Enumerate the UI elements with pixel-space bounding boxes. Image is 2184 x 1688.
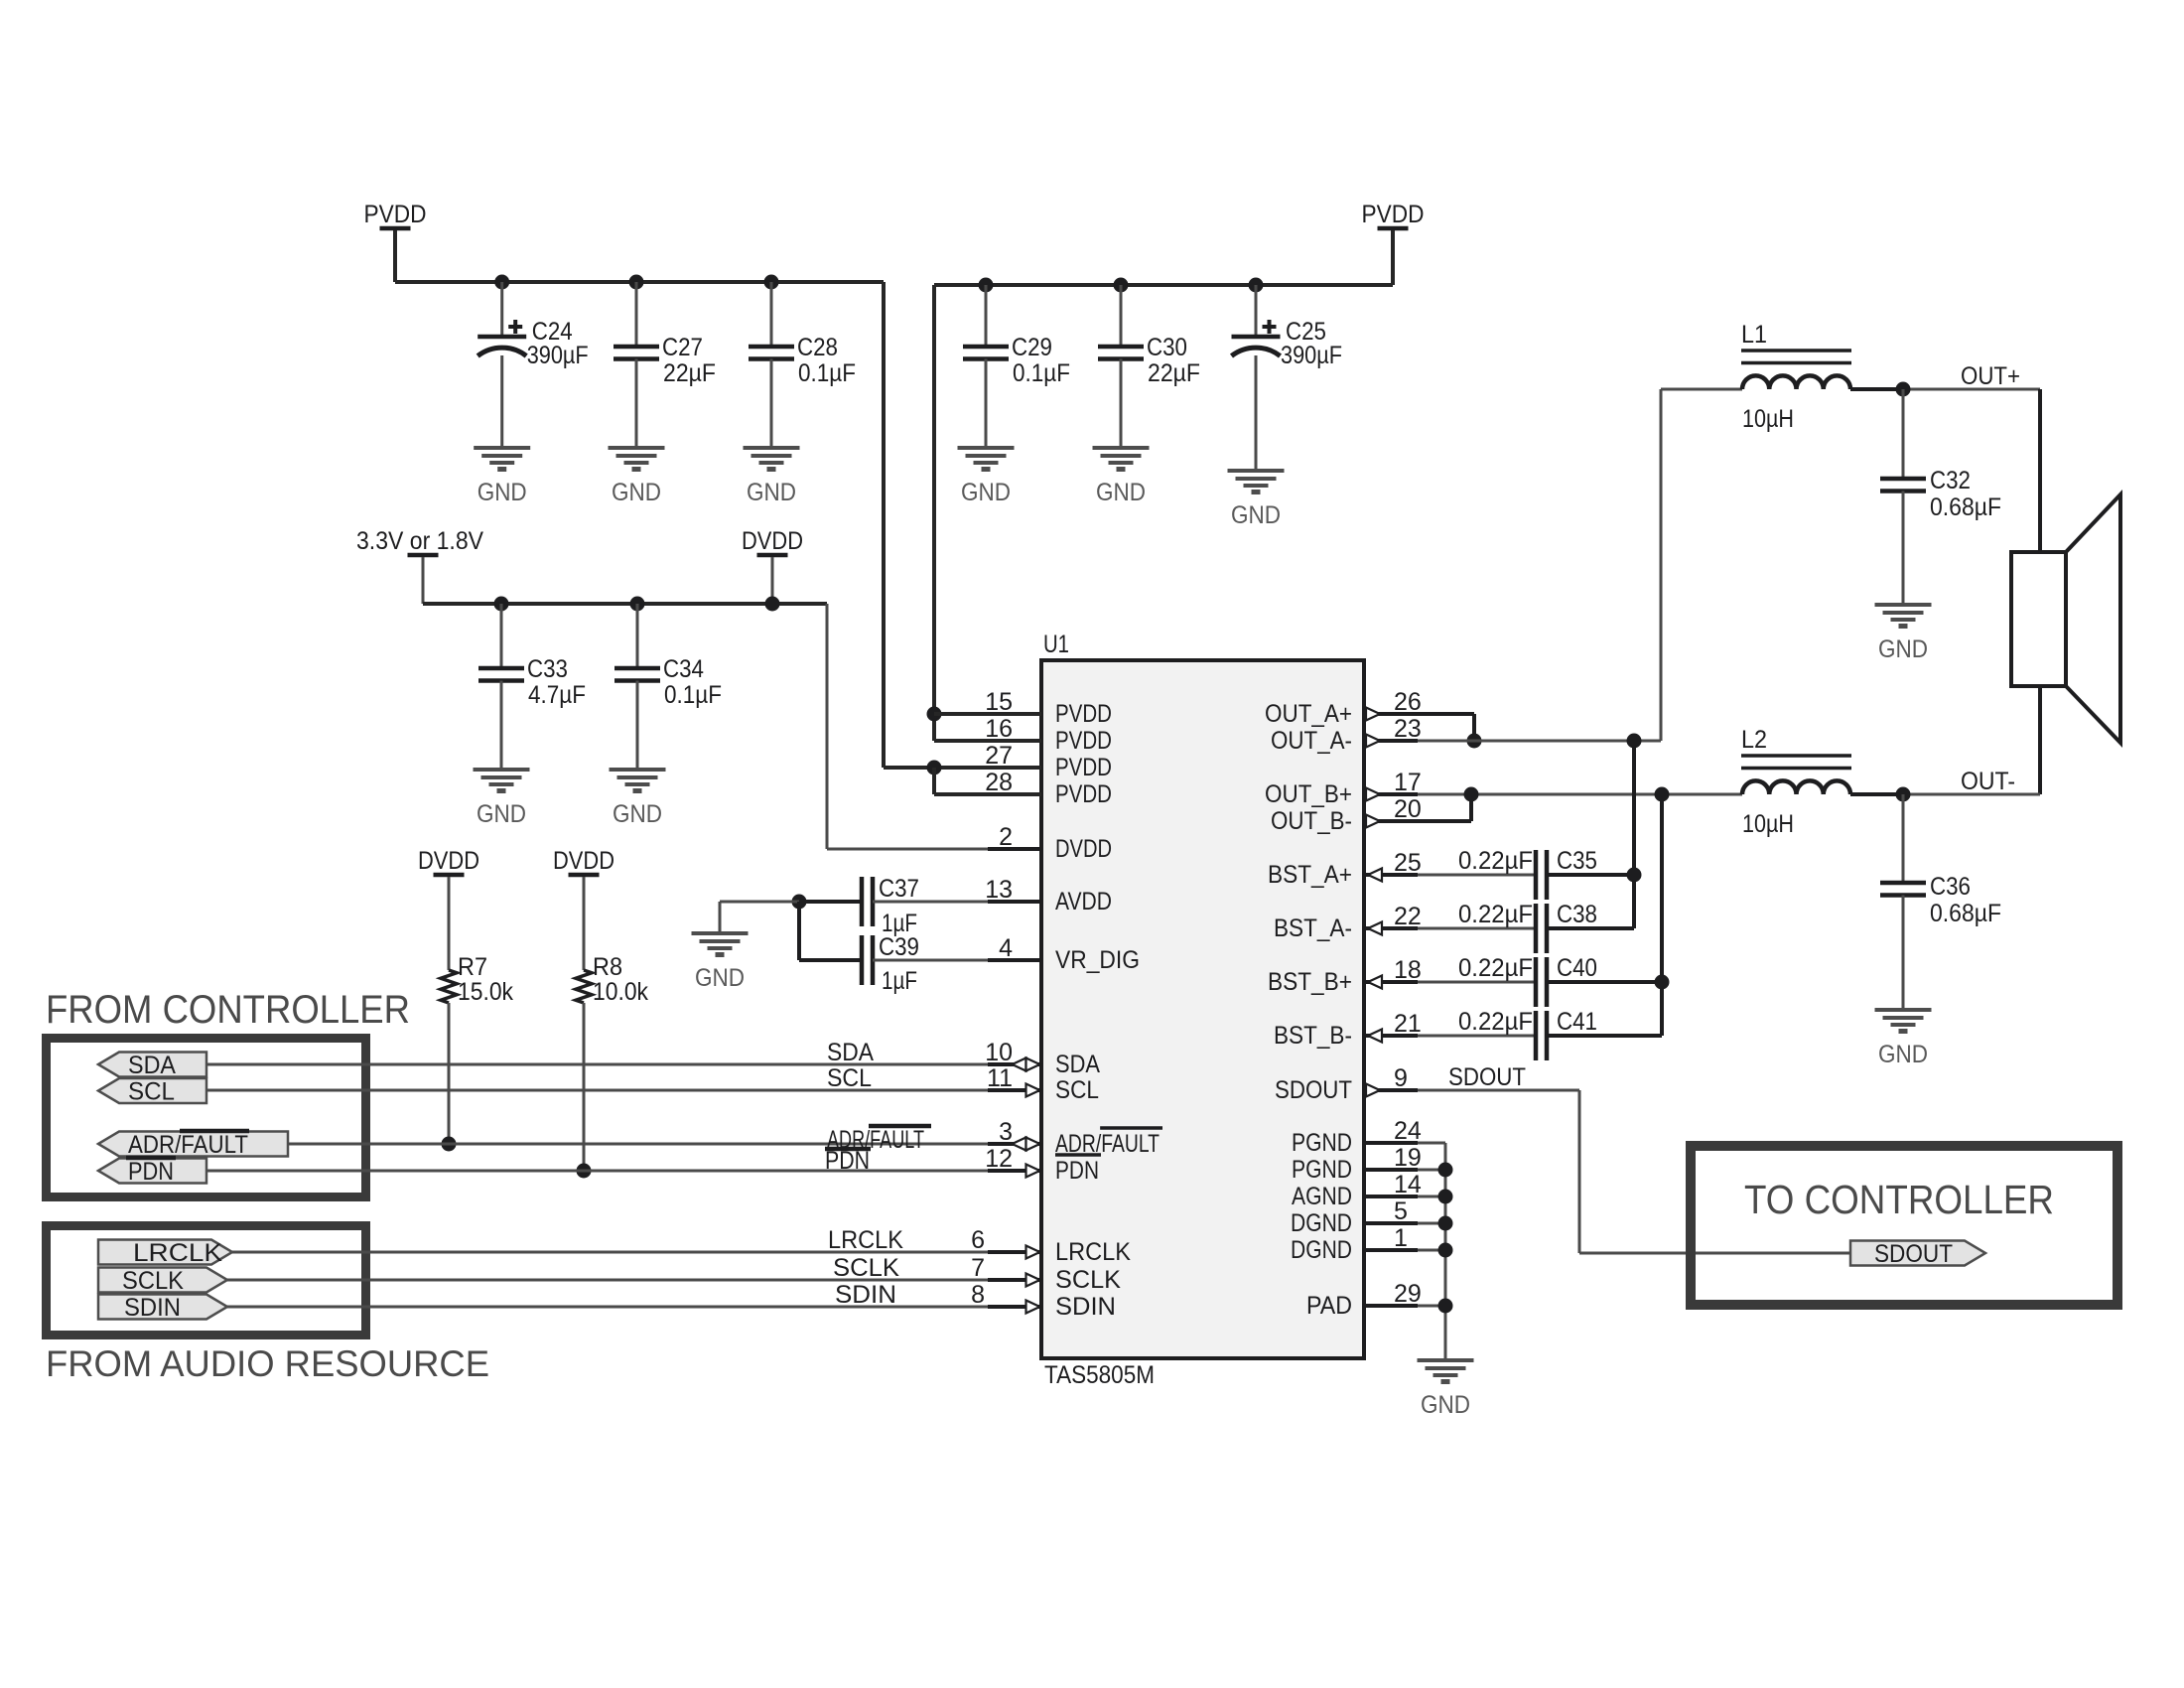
svg-text:BST_A-: BST_A- (1274, 914, 1352, 942)
svg-text:25: 25 (1394, 849, 1422, 877)
svg-text:SCLK: SCLK (833, 1254, 899, 1282)
svg-text:22: 22 (1394, 903, 1422, 930)
svg-text:10µH: 10µH (1742, 810, 1794, 838)
svg-text:15.0k: 15.0k (458, 978, 513, 1006)
svg-text:13: 13 (985, 876, 1013, 904)
svg-text:10.0k: 10.0k (593, 978, 648, 1006)
svg-text:OUT_A+: OUT_A+ (1265, 700, 1352, 728)
svg-text:10µH: 10µH (1742, 405, 1794, 433)
svg-text:TAS5805M: TAS5805M (1044, 1361, 1155, 1389)
svg-text:2: 2 (999, 823, 1013, 851)
svg-text:0.68µF: 0.68µF (1930, 493, 2001, 521)
svg-text:U1: U1 (1043, 631, 1069, 658)
svg-text:PVDD: PVDD (1055, 727, 1112, 755)
svg-text:PVDD: PVDD (1055, 780, 1112, 808)
svg-text:SDIN: SDIN (835, 1281, 896, 1309)
svg-text:DGND: DGND (1291, 1209, 1352, 1237)
svg-text:DGND: DGND (1291, 1236, 1352, 1264)
svg-text:28: 28 (985, 769, 1013, 796)
svg-text:0.22µF: 0.22µF (1458, 1008, 1533, 1036)
svg-text:C36: C36 (1930, 873, 1971, 901)
svg-text:DVDD: DVDD (553, 847, 614, 875)
svg-text:AGND: AGND (1292, 1183, 1352, 1210)
svg-text:PVDD: PVDD (1362, 201, 1425, 228)
svg-text:GND: GND (961, 479, 1011, 506)
svg-text:390µF: 390µF (527, 342, 589, 369)
svg-text:14: 14 (1394, 1171, 1422, 1198)
svg-text:PVDD: PVDD (1055, 700, 1112, 728)
svg-text:SDIN: SDIN (1055, 1293, 1116, 1321)
svg-text:C38: C38 (1557, 901, 1597, 928)
svg-text:LRCLK: LRCLK (133, 1239, 222, 1267)
svg-text:22µF: 22µF (663, 359, 716, 387)
svg-text:AVDD: AVDD (1055, 888, 1112, 915)
svg-text:OUT_B-: OUT_B- (1271, 807, 1352, 835)
svg-text:0.22µF: 0.22µF (1458, 847, 1533, 875)
svg-text:SDOUT: SDOUT (1874, 1240, 1953, 1268)
svg-text:GND: GND (1878, 635, 1928, 663)
svg-text:15: 15 (985, 688, 1013, 716)
svg-text:GND: GND (478, 479, 527, 506)
svg-text:6: 6 (971, 1226, 985, 1254)
svg-text:0.68µF: 0.68µF (1930, 900, 2001, 927)
svg-text:3.3V or 1.8V: 3.3V or 1.8V (356, 527, 483, 555)
svg-text:GND: GND (612, 479, 661, 506)
svg-text:GND: GND (1421, 1391, 1470, 1419)
svg-text:LRCLK: LRCLK (828, 1226, 903, 1254)
svg-text:GND: GND (747, 479, 796, 506)
svg-text:19: 19 (1394, 1144, 1422, 1172)
svg-text:C29: C29 (1012, 334, 1052, 361)
svg-text:L1: L1 (1741, 321, 1767, 349)
svg-text:SDOUT: SDOUT (1448, 1063, 1526, 1091)
svg-text:BST_B+: BST_B+ (1268, 968, 1352, 996)
svg-text:DVDD: DVDD (1055, 835, 1112, 863)
svg-text:4.7µF: 4.7µF (528, 681, 586, 709)
svg-text:22µF: 22µF (1148, 359, 1200, 387)
svg-text:12: 12 (985, 1145, 1013, 1173)
svg-text:SCL: SCL (128, 1078, 175, 1106)
svg-text:GND: GND (1096, 479, 1146, 506)
svg-text:PVDD: PVDD (1055, 754, 1112, 781)
svg-text:18: 18 (1394, 956, 1422, 984)
svg-text:21: 21 (1394, 1010, 1422, 1038)
svg-text:390µF: 390µF (1281, 342, 1342, 369)
svg-text:PDN: PDN (128, 1158, 174, 1186)
svg-text:3: 3 (999, 1118, 1013, 1146)
svg-text:0.22µF: 0.22µF (1458, 901, 1533, 928)
svg-text:SCLK: SCLK (1055, 1266, 1121, 1294)
svg-text:27: 27 (985, 742, 1013, 770)
svg-text:5: 5 (1394, 1197, 1408, 1225)
svg-text:BST_A+: BST_A+ (1268, 861, 1352, 889)
svg-text:SCLK: SCLK (122, 1267, 184, 1295)
svg-text:R7: R7 (458, 953, 487, 981)
svg-text:GND: GND (1231, 501, 1281, 529)
svg-text:L2: L2 (1741, 726, 1767, 754)
svg-text:LRCLK: LRCLK (1055, 1238, 1131, 1266)
svg-text:SCL: SCL (827, 1064, 872, 1092)
svg-text:R8: R8 (593, 953, 622, 981)
svg-text:TO CONTROLLER: TO CONTROLLER (1744, 1177, 2054, 1222)
svg-text:4: 4 (999, 934, 1013, 962)
svg-text:PGND: PGND (1292, 1129, 1352, 1157)
svg-text:PAD: PAD (1306, 1292, 1352, 1320)
svg-text:SDA: SDA (1055, 1051, 1100, 1078)
svg-text:C41: C41 (1557, 1008, 1597, 1036)
svg-text:7: 7 (971, 1254, 985, 1282)
svg-text:17: 17 (1394, 769, 1422, 796)
svg-text:SCL: SCL (1055, 1076, 1099, 1104)
svg-text:C37: C37 (879, 875, 919, 903)
svg-text:GND: GND (477, 800, 526, 828)
svg-text:16: 16 (985, 715, 1013, 743)
svg-text:C28: C28 (797, 334, 838, 361)
svg-text:C30: C30 (1147, 334, 1187, 361)
svg-text:0.1µF: 0.1µF (798, 359, 856, 387)
svg-text:PVDD: PVDD (364, 201, 427, 228)
svg-text:29: 29 (1394, 1280, 1422, 1308)
svg-text:GND: GND (613, 800, 662, 828)
svg-text:0.22µF: 0.22µF (1458, 954, 1533, 982)
svg-text:DVDD: DVDD (742, 527, 803, 555)
svg-text:GND: GND (1878, 1041, 1928, 1068)
svg-text:C39: C39 (879, 933, 919, 961)
svg-text:23: 23 (1394, 715, 1422, 743)
svg-text:OUT-: OUT- (1961, 768, 2015, 795)
svg-text:C32: C32 (1930, 467, 1971, 494)
svg-text:SDOUT: SDOUT (1275, 1076, 1352, 1104)
svg-text:VR_DIG: VR_DIG (1055, 946, 1140, 974)
svg-text:BST_B-: BST_B- (1274, 1022, 1352, 1050)
svg-text:OUT_A-: OUT_A- (1271, 727, 1352, 755)
svg-text:9: 9 (1394, 1064, 1408, 1092)
svg-text:C40: C40 (1557, 954, 1597, 982)
svg-text:C27: C27 (662, 334, 703, 361)
svg-text:FROM AUDIO RESOURCE: FROM AUDIO RESOURCE (46, 1343, 489, 1384)
svg-text:11: 11 (987, 1064, 1013, 1092)
svg-text:ADR/FAULT: ADR/FAULT (128, 1131, 248, 1159)
svg-text:SDA: SDA (128, 1052, 176, 1079)
svg-text:1: 1 (1394, 1224, 1408, 1252)
svg-text:OUT+: OUT+ (1961, 362, 2020, 390)
svg-text:0.1µF: 0.1µF (1013, 359, 1070, 387)
svg-text:PGND: PGND (1292, 1156, 1352, 1184)
svg-text:FROM CONTROLLER: FROM CONTROLLER (46, 988, 410, 1032)
svg-text:C34: C34 (663, 655, 704, 683)
svg-text:24: 24 (1394, 1117, 1422, 1145)
svg-text:10: 10 (985, 1039, 1013, 1066)
svg-text:GND: GND (695, 964, 745, 992)
svg-text:C33: C33 (527, 655, 568, 683)
svg-text:DVDD: DVDD (418, 847, 479, 875)
svg-text:26: 26 (1394, 688, 1422, 716)
svg-text:0.1µF: 0.1µF (664, 681, 722, 709)
svg-text:SDA: SDA (827, 1039, 874, 1066)
svg-text:20: 20 (1394, 795, 1422, 823)
svg-text:OUT_B+: OUT_B+ (1265, 780, 1352, 808)
svg-text:C35: C35 (1557, 847, 1597, 875)
svg-text:SDIN: SDIN (124, 1294, 181, 1322)
svg-text:8: 8 (971, 1281, 985, 1309)
svg-text:1µF: 1µF (882, 967, 917, 995)
svg-text:PDN: PDN (1055, 1157, 1099, 1185)
